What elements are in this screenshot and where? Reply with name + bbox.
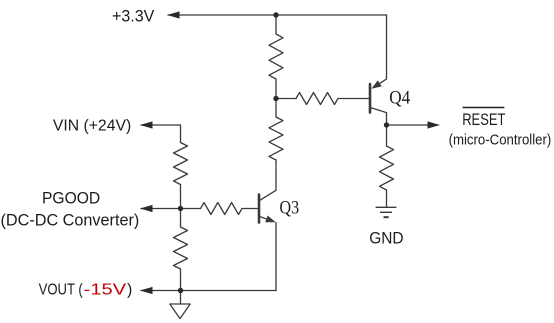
- arrowhead PGOOD (left): [140, 205, 153, 212]
- arrowhead VOUT (left): [140, 287, 153, 294]
- resistor R1 (+3.3V rail to node B): [269, 34, 283, 79]
- resistor R6 (Q3 base resistor): [201, 203, 243, 215]
- transistor Q4: [370, 79, 387, 125]
- wire node B to R3: [276, 98, 296, 100]
- svg-text:VIN (+24V): VIN (+24V): [53, 118, 131, 135]
- wire Q4 emitter vertical from rail: [386, 15, 388, 79]
- resistor R2 (node B to Q3 collector): [269, 117, 283, 160]
- svg-text:(micro-Controller): (micro-Controller): [449, 132, 552, 148]
- svg-text:(DC-DC Converter): (DC-DC Converter): [1, 211, 140, 229]
- wire Q4 collector node to RESET arrow: [387, 124, 429, 126]
- junction node VOUT: [178, 288, 183, 293]
- wire R1 bottom to node B: [275, 79, 277, 117]
- wire VIN input: [141, 124, 181, 126]
- resistor R5 (PGOOD node to VOUT node): [174, 227, 188, 269]
- transistor Q3: [259, 190, 276, 222]
- resistor R4 (VIN to PGOOD node): [174, 143, 188, 185]
- wire +3.3V top rail: [168, 14, 387, 16]
- svg-text:Q3: Q3: [280, 199, 300, 219]
- svg-text:PGOOD: PGOOD: [42, 190, 100, 208]
- svg-text:-15V: -15V: [84, 281, 127, 298]
- wire R5 bottom to VOUT node and ground: [180, 269, 182, 304]
- wire PGOOD output: [141, 208, 181, 210]
- wire VIN corner to R4: [180, 125, 182, 143]
- svg-text:): ): [127, 281, 132, 298]
- wire Q4 collector node to R7: [386, 125, 388, 146]
- svg-text:Q4: Q4: [389, 88, 410, 108]
- arrowhead RESET (right): [428, 121, 441, 128]
- wire R4 bottom through PGOOD node: [180, 185, 182, 228]
- ground earth triangle at VOUT rail: [170, 304, 190, 319]
- arrowhead VIN (left): [140, 121, 153, 128]
- junction node Q4 collector / RESET: [384, 122, 389, 127]
- junction node PGOOD: [178, 206, 183, 211]
- ground GND (signal ground under R7): [376, 207, 397, 217]
- junction node on +3.3V rail: [273, 12, 278, 17]
- svg-text:GND: GND: [369, 230, 403, 248]
- wire R2 bottom to Q3 collector: [275, 160, 277, 190]
- resistor R7 (RESET pull-down): [380, 146, 394, 190]
- wire R6 to Q3 base: [242, 208, 258, 210]
- wire VOUT rail to Q3 emitter: [181, 290, 277, 292]
- wire VOUT output: [141, 290, 181, 292]
- wire PGOOD node to R6: [181, 208, 201, 210]
- svg-text:+3.3V: +3.3V: [112, 8, 154, 26]
- wire middle vertical top stub: [275, 15, 277, 34]
- resistor R3 (Q4 base resistor): [296, 93, 338, 105]
- wire R7 bottom to GND: [386, 190, 388, 207]
- svg-text:VOUT (: VOUT (: [39, 281, 84, 298]
- arrowhead +3.3V (left): [167, 11, 180, 18]
- junction node B (divider mid): [273, 96, 278, 101]
- wire R3 to Q4 base: [338, 98, 369, 100]
- svg-text:RESET: RESET: [462, 111, 505, 129]
- overline for RESET: [463, 107, 505, 109]
- wire Q3 emitter down to VOUT rail: [275, 223, 277, 291]
